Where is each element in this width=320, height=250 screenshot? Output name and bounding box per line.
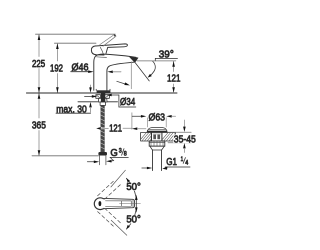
svg-text:121: 121 [109,123,122,135]
taper below locknut [150,146,165,150]
svg-text:192: 192 [50,63,63,75]
counter surface line [26,92,177,94]
cartridge dome top [96,54,104,56]
swing arc tip marker with arrows [135,195,138,213]
svg-text:225: 225 [32,58,45,70]
G1 1/4 left arrow [142,167,153,170]
dimension 365 vertical line [38,93,41,156]
svg-text:Ø63: Ø63 [149,112,166,124]
svg-text:Ø34: Ø34 [120,96,135,108]
svg-text:4: 4 [185,160,188,167]
body circle (top view) [94,198,106,210]
arrow at faucet body right edge (Ø46 right arrow) [107,71,121,74]
spout tip / aerator (dark) [130,57,139,63]
label 50° lower [125,215,142,223]
39° angle arc [148,61,156,78]
tailpipe G1 1/4 [153,150,162,171]
svg-text:3: 3 [119,147,122,154]
label Ø34 with leader box [119,95,136,108]
counter underside line (right of mount) [107,101,118,103]
spout height extension line [137,60,176,62]
dimension 192 vertical line [56,43,59,92]
supply hose (threaded rod) [101,105,105,152]
lever (plan, solid) [104,198,141,208]
label Ø46 with underline leader [71,62,94,74]
dimension 121 (left, horizontal) [96,127,146,130]
dimension max. 30 arrows [89,85,92,112]
Ø63 extension stubs [148,118,167,127]
counter underside line (left of mount) [78,101,98,103]
stream vertical projection line [130,62,132,89]
waste cap (mushroom) [147,128,167,133]
lever handle raised position (thin lines) [100,34,117,46]
50° arc upper [126,178,136,197]
counter slab with hatching (left) [141,133,152,142]
dimension 192 horizontal extension line [54,42,96,44]
hose end connector nut (dark) [98,152,107,156]
water stream direction line (39°) [134,61,150,81]
threaded shank through counter (dark) [101,93,105,102]
lever handle (closed position) [91,44,127,55]
35-45 dimension arrows [183,120,186,153]
mounting bracket under counter [96,95,110,106]
label 39° underlined [155,49,177,61]
svg-text:1: 1 [181,156,184,163]
lever pin slot [99,201,102,206]
svg-text:365: 365 [32,120,46,132]
G3/8 width dimension arrows [87,160,114,163]
dimension 225 horizontal extension line (top) [36,33,116,35]
svg-text:50°: 50° [126,214,141,226]
Ø34 dimension arrows [85,94,119,98]
35-45 extension lines [168,132,191,143]
label G3/8 underlined [110,147,128,161]
svg-text:8: 8 [124,151,127,158]
leader arrow pointing at stream line [117,81,130,85]
dimension 121 (right) vertical [172,61,175,93]
faucet body column [94,56,134,91]
label max. 30 underlined [56,103,91,115]
waste body through slab (threaded) [152,133,162,142]
svg-text:35-45: 35-45 [174,134,196,146]
G3/8 nipple outline [99,156,106,165]
label 50° upper [125,183,142,191]
lever rotated +50° (dashed) [98,180,122,199]
svg-text:121: 121 [167,72,181,84]
locknut (knurled) [149,141,165,146]
label 35-45 [173,134,196,143]
extension line for 121 left [131,113,133,129]
label G1 1/4 underlined with leader [162,156,190,170]
faucet base flange [96,89,110,93]
dimension 225 vertical line [38,34,41,92]
counter slab with hatching (right) [162,133,175,142]
spout top edge [97,54,137,57]
Ø63 dimension line [132,115,175,118]
50° arc lower [126,210,136,229]
svg-text:50°: 50° [126,181,141,193]
svg-text:G1: G1 [166,156,177,168]
lever rotated -50° (dashed) [98,208,122,227]
hose-end extension line (365 bottom) [32,155,99,157]
